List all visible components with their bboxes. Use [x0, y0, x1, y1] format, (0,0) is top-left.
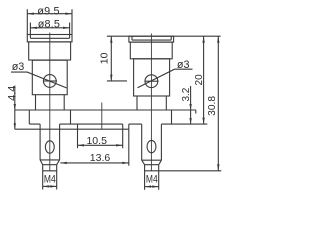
leader line ø3 right	[138, 69, 193, 88]
right knob cap	[129, 36, 174, 42]
dim line 10 vertical	[110, 36, 112, 81]
dim line ø8.5	[30, 27, 69, 29]
svg-text:30.8: 30.8	[207, 96, 218, 116]
right stud	[142, 124, 162, 160]
svg-text:13.6: 13.6	[90, 152, 111, 164]
leader line ø3 left	[11, 72, 67, 88]
right centerline	[150, 34, 152, 172]
plate deep bottom edge	[15, 128, 129, 130]
dim line 20 vertical	[203, 36, 205, 124]
svg-text:M4: M4	[44, 173, 56, 185]
right neck	[137, 96, 166, 110]
svg-text:10: 10	[99, 52, 111, 64]
svg-text:ø3: ø3	[12, 61, 25, 73]
dim line 3.2 vertical	[190, 86, 192, 124]
left neck	[36, 95, 65, 110]
right body	[134, 59, 170, 96]
right M4 stub	[145, 165, 159, 190]
left stud chamfer	[40, 160, 60, 165]
dim line 30.8 vertical	[217, 36, 219, 171]
dim line M4 left	[43, 185, 57, 187]
dim line 10.5	[78, 144, 123, 146]
right hole center tick	[145, 80, 159, 82]
svg-text:4.4: 4.4	[7, 86, 19, 101]
extension lines ø8.5	[30, 23, 69, 35]
recess wall / ext line right post left	[128, 124, 130, 166]
svg-text:3.2: 3.2	[181, 87, 192, 101]
right slot oval	[147, 140, 156, 152]
svg-text:M4: M4	[146, 174, 158, 186]
left collar	[29, 42, 71, 60]
left hole center tick	[43, 80, 57, 82]
right cap inner step	[132, 36, 171, 40]
plate center mark	[101, 103, 103, 129]
svg-text:ø9.5: ø9.5	[37, 6, 59, 18]
left stud	[40, 124, 60, 160]
right collar	[130, 42, 172, 59]
svg-text:10.5: 10.5	[86, 135, 107, 147]
recess ceiling segments	[29, 123, 207, 125]
svg-text:20: 20	[194, 74, 205, 86]
dim line M4 right	[145, 186, 159, 188]
left cap inner step	[30, 35, 69, 39]
right hole circle ø3	[145, 75, 158, 88]
recess wall right of right post	[171, 110, 173, 124]
dim line 13.6	[60, 162, 129, 164]
reference line hole center right	[107, 80, 127, 82]
top reference line	[107, 35, 221, 37]
extension lines ø9.5	[27, 9, 72, 34]
plate left edge / dim line 4.4	[14, 86, 16, 130]
left slot oval	[45, 141, 54, 153]
left knob cap	[27, 35, 72, 42]
dim line ø9.5	[27, 13, 72, 15]
recess wall right of left post	[70, 110, 72, 124]
bottom reference line	[159, 170, 222, 172]
recess wall left of left post	[28, 110, 30, 124]
left centerline	[49, 33, 51, 172]
right tab step	[195, 110, 197, 114]
svg-text:ø8.5: ø8.5	[38, 18, 60, 30]
right stud chamfer	[142, 160, 162, 165]
ext line 10.5 left	[77, 124, 79, 148]
ext line 10.5 right	[122, 129, 124, 148]
left hole circle ø3	[43, 75, 56, 88]
left body	[32, 60, 67, 94]
notch step	[122, 124, 124, 129]
left M4 stub	[43, 165, 57, 190]
plate top edge	[15, 109, 196, 111]
